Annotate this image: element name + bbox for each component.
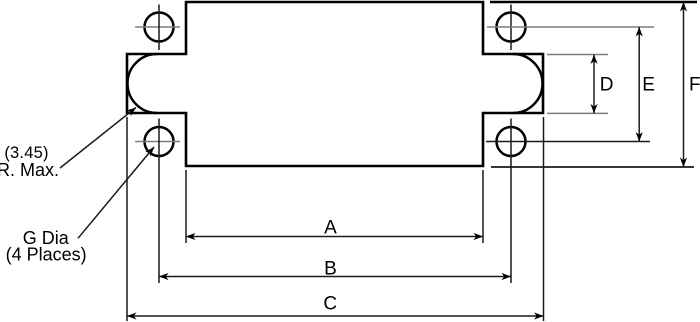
- svg-text:(4 Places): (4 Places): [6, 245, 87, 265]
- leader line for corner radius note: [60, 108, 136, 169]
- right slot semicircle arc: [513, 54, 543, 113]
- svg-text:B: B: [324, 259, 337, 280]
- extension line E bottom (through bottom-right hole centre): [486, 141, 650, 143]
- crosshair horizontal top-left hole: [135, 26, 180, 28]
- extension line E top (grey, through top-right hole centre): [487, 26, 654, 28]
- mounting hole bottom-left: [145, 127, 174, 156]
- extension line D bottom (grey): [547, 112, 608, 114]
- dimension line E: [638, 27, 640, 142]
- svg-text:C: C: [323, 294, 337, 315]
- dimension line C: [127, 315, 544, 317]
- extension line C left: [126, 117, 128, 321]
- mounting hole bottom-right: [497, 127, 526, 156]
- crosshair vertical bottom-right hole, extends to B dimension: [510, 119, 512, 284]
- dimension line A: [186, 236, 483, 238]
- left slot semicircle arc: [128, 54, 158, 113]
- crosshair vertical top-right hole: [510, 5, 512, 51]
- svg-text:F: F: [689, 75, 700, 96]
- svg-text:A: A: [324, 218, 337, 239]
- dimension line D: [593, 55, 595, 114]
- extension line A left: [185, 170, 187, 243]
- crosshair horizontal bottom-left hole: [135, 141, 180, 143]
- svg-text:D: D: [600, 75, 614, 96]
- svg-text:E: E: [642, 75, 655, 96]
- mounting hole top-right: [497, 13, 526, 42]
- dimension line F: [683, 2, 685, 167]
- extension line F bottom: [491, 166, 694, 168]
- dimension line B: [159, 276, 511, 278]
- svg-text:R. Max.: R. Max.: [0, 160, 59, 180]
- extension line C right: [543, 117, 545, 321]
- extension line A right: [482, 170, 484, 243]
- crosshair vertical bottom-left hole, extends to B dimension: [158, 119, 160, 284]
- extension line F top: [490, 1, 697, 4]
- mounting hole top-left: [145, 13, 174, 42]
- leader line for hole diameter note: [78, 147, 154, 238]
- ballast body outline: [127, 2, 543, 166]
- extension line D top (grey): [547, 54, 608, 56]
- crosshair vertical top-left hole: [158, 5, 160, 51]
